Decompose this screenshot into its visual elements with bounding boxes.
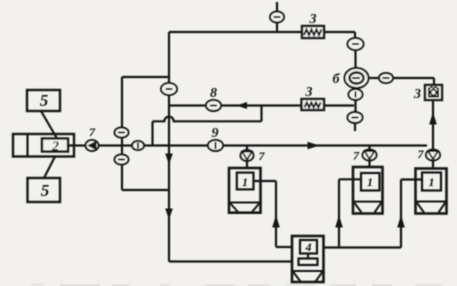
- svg-text:3: 3: [309, 12, 317, 27]
- svg-text:3: 3: [305, 85, 313, 100]
- svg-text:5: 5: [40, 91, 49, 110]
- svg-text:2: 2: [51, 140, 59, 155]
- svg-text:7: 7: [353, 149, 360, 163]
- svg-text:1: 1: [429, 175, 435, 189]
- svg-text:1: 1: [242, 175, 248, 189]
- svg-text:4: 4: [305, 240, 312, 254]
- svg-text:б: б: [333, 72, 341, 87]
- svg-text:3: 3: [413, 87, 421, 102]
- svg-text:1: 1: [367, 175, 373, 189]
- svg-text:7: 7: [259, 149, 266, 163]
- svg-text:9: 9: [212, 126, 219, 141]
- svg-text:7: 7: [418, 147, 425, 161]
- svg-text:7: 7: [89, 125, 96, 139]
- svg-text:8: 8: [210, 86, 217, 101]
- svg-text:5: 5: [41, 181, 50, 200]
